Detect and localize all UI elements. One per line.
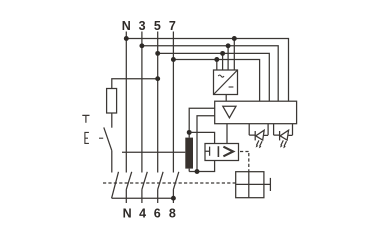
- LED D2 right stub: [292, 124, 294, 135]
- LED D1 right stub: [267, 124, 269, 135]
- wire bus 7 to electronics: [173, 60, 259, 102]
- junction dot converter tap 3: [226, 43, 231, 48]
- junction dot converter tap 5: [220, 51, 225, 56]
- svg-text:3: 3: [139, 19, 146, 33]
- LED D1 cathode bar: [254, 131, 256, 140]
- resistor R test: [107, 89, 117, 114]
- wire converter tap from bus 3: [227, 46, 229, 70]
- wire test button to contact: [111, 151, 113, 173]
- contact blade pole 8: [173, 172, 178, 190]
- LED D2 emission arrows: [281, 140, 287, 146]
- wire CT top to trip relay: [189, 132, 214, 143]
- label T test button: [82, 115, 89, 122]
- wire converter output: [225, 95, 227, 102]
- wire amplifier input from CT: [197, 116, 215, 172]
- dashed mechanical link line: [103, 182, 236, 184]
- wire pole N lower: [125, 189, 127, 203]
- amplifier U2 triangle: [223, 106, 236, 118]
- CT core line through poles: [122, 151, 185, 153]
- converter U1 AC/DC box: [214, 70, 238, 95]
- contact blade test pole: [112, 172, 119, 198]
- junction dot test return on pole 8: [171, 196, 176, 201]
- contact blade pole N: [126, 172, 131, 190]
- LED D1 triangle: [256, 130, 265, 140]
- wire CT bottom to trip relay: [189, 161, 214, 172]
- wire pole 5 conductor: [157, 32, 159, 173]
- svg-text:8: 8: [169, 207, 176, 221]
- wire CT top to amplifier: [189, 108, 215, 132]
- test button contact blade: [104, 127, 112, 150]
- wire CT top stub: [188, 132, 190, 137]
- LED D1 left stub: [248, 124, 250, 135]
- trip relay K1 I bar: [217, 146, 219, 157]
- junction dot bus N on pole N: [124, 36, 129, 41]
- wire pole 6 lower: [157, 189, 159, 203]
- wire bus 3 to electronics: [142, 46, 278, 101]
- dashed link trip relay to solenoid: [240, 152, 249, 172]
- test button actuator link: [99, 137, 103, 139]
- trip relay K1 box: [205, 144, 239, 161]
- junction dot converter tap 7: [214, 57, 219, 62]
- junction dot bus 5 on pole 5: [155, 51, 160, 56]
- converter U1 AC tilde: [218, 75, 224, 77]
- wire pole N conductor: [125, 32, 127, 173]
- svg-text:N: N: [123, 207, 132, 221]
- svg-text:7: 7: [169, 19, 176, 33]
- LED D2 cathode bar: [279, 131, 281, 140]
- svg-text:N: N: [122, 19, 131, 33]
- wire test return: [112, 197, 174, 199]
- junction dot CT top: [187, 130, 192, 135]
- wire amplifier to trip relay: [226, 124, 228, 144]
- CT secondary winding bar: [185, 138, 193, 169]
- contact blade pole 4: [142, 172, 147, 190]
- svg-text:4: 4: [139, 207, 146, 221]
- converter U1 DC dash: [229, 86, 234, 88]
- wire resistor to test button: [111, 113, 113, 128]
- wire test tap from pole 5: [112, 79, 158, 89]
- solenoid armature end tick: [269, 178, 271, 191]
- junction dot bus 7 on pole 7: [171, 57, 176, 62]
- wire CT bottom stub: [188, 169, 190, 172]
- junction dot converter tap N: [232, 36, 237, 41]
- junction dot bus 3 on pole 3: [139, 43, 144, 48]
- wire bus N to electronics: [126, 39, 288, 102]
- LED D1 emission arrows: [257, 140, 263, 146]
- contact blade pole 6: [158, 172, 163, 190]
- junction dot CT bottom: [195, 169, 200, 174]
- converter U1 diagonal: [214, 70, 238, 95]
- solenoid actuator box: [236, 172, 264, 198]
- wire converter tap from bus 5: [222, 53, 224, 70]
- wire pole 3 conductor: [141, 32, 143, 173]
- trip relay K1 input tick: [205, 147, 210, 156]
- test button actuator bracket: [85, 132, 89, 143]
- wire pole 7 conductor: [172, 32, 174, 173]
- svg-text:6: 6: [154, 207, 161, 221]
- wire pole 4 lower: [141, 189, 143, 203]
- LED D2 triangle: [280, 130, 289, 140]
- wire bus 5 to electronics: [158, 53, 270, 101]
- solenoid armature line: [236, 183, 271, 185]
- wire converter tap from bus N: [233, 39, 235, 71]
- wire converter tap from bus 7: [216, 60, 218, 71]
- LED D2 leads: [274, 134, 293, 136]
- amplifier U2 box: [215, 101, 297, 124]
- trip relay K1 greater-than: [223, 147, 233, 157]
- LED D1 leads: [249, 134, 268, 136]
- junction dot test tap on pole 5: [155, 76, 160, 81]
- solenoid internal vertical link: [248, 172, 250, 198]
- svg-text:5: 5: [154, 19, 161, 33]
- LED D2 left stub: [273, 124, 275, 135]
- wire pole 8 lower: [172, 189, 174, 203]
